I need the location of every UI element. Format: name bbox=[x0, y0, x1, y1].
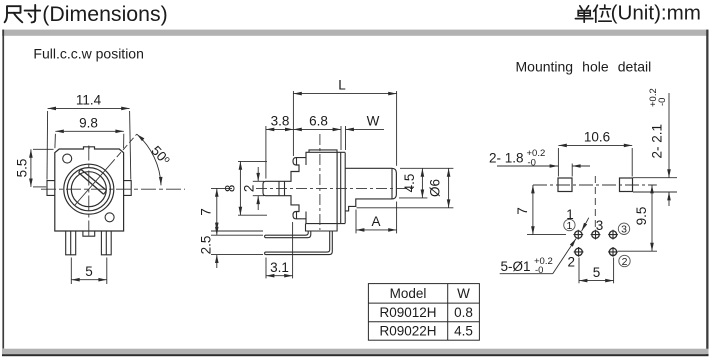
front horizontal centerline bbox=[41, 188, 185, 190]
title glyph 单 bbox=[575, 6, 592, 22]
svg-text:R09022H: R09022H bbox=[379, 324, 436, 339]
dim 5.5 bbox=[15, 149, 54, 187]
dim 3.1 bbox=[266, 222, 293, 278]
side body outline bbox=[263, 152, 337, 223]
mounting square right bbox=[620, 178, 633, 192]
front vertical centerline bbox=[88, 146, 90, 238]
svg-text:6.8: 6.8 bbox=[309, 113, 328, 128]
svg-text:Ø6: Ø6 bbox=[427, 179, 442, 197]
front body outline bbox=[55, 147, 124, 231]
label circled 3 bbox=[618, 223, 629, 236]
svg-text:Mounting hole detail: Mounting hole detail bbox=[516, 59, 652, 75]
dim 2-2.1 vertical bbox=[633, 88, 677, 206]
title glyph 位 bbox=[594, 5, 612, 22]
svg-text:7: 7 bbox=[515, 207, 530, 215]
frame bottom black line bbox=[2, 354, 709, 356]
dim W bbox=[346, 113, 385, 150]
svg-text:7: 7 bbox=[199, 208, 214, 216]
hole pin2 lower-right bbox=[608, 247, 618, 257]
dim A bbox=[356, 202, 397, 234]
svg-text:5-Ø1: 5-Ø1 bbox=[501, 259, 531, 274]
front left side tab bbox=[47, 181, 55, 196]
dim dia 6 bbox=[357, 168, 454, 208]
table row line 2 bbox=[368, 321, 479, 323]
title glyph 尺 bbox=[5, 6, 23, 22]
rotor ring circle bbox=[67, 168, 110, 211]
front leg right bbox=[101, 231, 111, 255]
dim 3.8 bbox=[266, 113, 294, 178]
frame right border bbox=[706, 30, 708, 356]
svg-text:5.5: 5.5 bbox=[15, 159, 30, 178]
dim 8 bbox=[223, 161, 267, 215]
svg-text:3.8: 3.8 bbox=[271, 113, 290, 128]
table row line 1 bbox=[368, 302, 479, 304]
leader 5-dia1 bbox=[500, 239, 576, 277]
rotor slot line upper bbox=[81, 169, 107, 190]
svg-text:11.4: 11.4 bbox=[76, 93, 102, 108]
svg-text:W: W bbox=[457, 286, 470, 301]
bottom band bbox=[306, 224, 338, 231]
svg-text:1: 1 bbox=[566, 220, 572, 232]
nub chamfer lines bbox=[279, 181, 285, 195]
dim 7 bbox=[199, 188, 263, 231]
svg-text:-0: -0 bbox=[535, 265, 543, 276]
shaft with D-flat bbox=[345, 168, 396, 211]
front screw hole bottom-right bbox=[105, 213, 114, 222]
dim 6.8 bbox=[293, 113, 341, 150]
svg-text:(Unit):mm: (Unit):mm bbox=[611, 2, 701, 25]
label circled 2 bbox=[619, 255, 630, 267]
dim 9.8 bbox=[55, 116, 124, 149]
rotor inner circle bbox=[71, 172, 106, 207]
svg-text:4.5: 4.5 bbox=[454, 324, 473, 339]
pin B bent bbox=[265, 231, 333, 255]
svg-text:A: A bbox=[371, 214, 380, 229]
svg-text:4.5: 4.5 bbox=[402, 174, 417, 193]
pin A bent bbox=[265, 231, 311, 238]
dim 2.5 bbox=[199, 222, 263, 268]
svg-text:2: 2 bbox=[241, 185, 256, 193]
detail horizontal centerline bbox=[533, 184, 657, 186]
dim 11.4 bbox=[47, 93, 131, 180]
side horizontal centerline bbox=[256, 187, 413, 189]
mounting square left bbox=[558, 178, 572, 192]
dim L bbox=[293, 78, 396, 166]
svg-text:2.5: 2.5 bbox=[199, 236, 214, 255]
hole pin2 lower-left bbox=[574, 247, 584, 257]
shaft tip chamfer line bbox=[391, 169, 393, 199]
svg-text:2: 2 bbox=[568, 254, 576, 269]
svg-text:-0: -0 bbox=[657, 98, 668, 106]
svg-text:3: 3 bbox=[621, 224, 627, 236]
label circled 1 bbox=[564, 219, 575, 232]
front leg left bbox=[66, 231, 76, 255]
svg-text:9.8: 9.8 bbox=[79, 116, 98, 131]
front body top small tabs divider bbox=[88, 147, 90, 149]
svg-text:-0: -0 bbox=[528, 157, 536, 168]
svg-text:(Dimensions): (Dimensions) bbox=[42, 2, 167, 26]
dim 9.5 detail bbox=[618, 185, 657, 251]
hole pin3 right bbox=[608, 230, 618, 240]
front bottom center tab bbox=[83, 231, 95, 236]
hole pin3 middle bbox=[591, 230, 601, 240]
clip inner lines bbox=[297, 158, 307, 219]
rotor slot end caps bbox=[79, 169, 107, 194]
ccw position dashed line bbox=[75, 164, 111, 205]
svg-text:3: 3 bbox=[596, 218, 604, 233]
svg-text:Full.c.c.w position: Full.c.c.w position bbox=[33, 46, 143, 62]
dim 4.5 bbox=[399, 168, 453, 198]
dim 5 (front legs) bbox=[71, 258, 107, 285]
svg-text:5: 5 bbox=[85, 264, 93, 279]
hole pin1 bbox=[573, 230, 583, 240]
dim 7 detail bbox=[515, 185, 566, 235]
dim 2-1.8 leader bbox=[489, 148, 590, 176]
svg-text:5: 5 bbox=[593, 265, 601, 280]
front right side tab bbox=[124, 181, 132, 196]
table border bbox=[368, 284, 479, 341]
svg-text:50o: 50o bbox=[148, 143, 173, 168]
svg-text:2- 2.1: 2- 2.1 bbox=[650, 124, 665, 159]
svg-text:3.1: 3.1 bbox=[270, 260, 289, 275]
side body top step bbox=[309, 150, 337, 152]
leader pin1 number bbox=[582, 218, 589, 231]
frame bottom gray bar bbox=[2, 349, 709, 355]
rotor outer circle bbox=[64, 164, 114, 214]
svg-text:0.8: 0.8 bbox=[454, 305, 473, 320]
dim 2 bbox=[241, 167, 264, 210]
svg-text:R09012H: R09012H bbox=[379, 305, 436, 320]
svg-text:2: 2 bbox=[622, 256, 628, 268]
svg-text:10.6: 10.6 bbox=[584, 130, 610, 145]
dim 10.6 bbox=[558, 130, 632, 177]
svg-text:Model: Model bbox=[390, 286, 427, 301]
frame top gray bar bbox=[2, 30, 708, 36]
dim 5 detail bbox=[579, 258, 614, 284]
svg-text:W: W bbox=[367, 113, 380, 128]
side vertical centerline bbox=[319, 134, 321, 230]
angle arc 50 deg bbox=[137, 134, 173, 185]
table column line bbox=[447, 284, 449, 341]
title glyph 寸 bbox=[25, 5, 41, 22]
mounting plate bbox=[337, 152, 345, 223]
svg-text:9.5: 9.5 bbox=[634, 207, 649, 226]
svg-text:L: L bbox=[338, 78, 346, 93]
front screw hole top-left bbox=[63, 154, 72, 163]
detail vertical dashed centerline bbox=[594, 176, 596, 229]
svg-text:2- 1.8: 2- 1.8 bbox=[489, 150, 524, 165]
rotor slot line lower bbox=[79, 173, 104, 195]
frame left border bbox=[2, 30, 4, 349]
